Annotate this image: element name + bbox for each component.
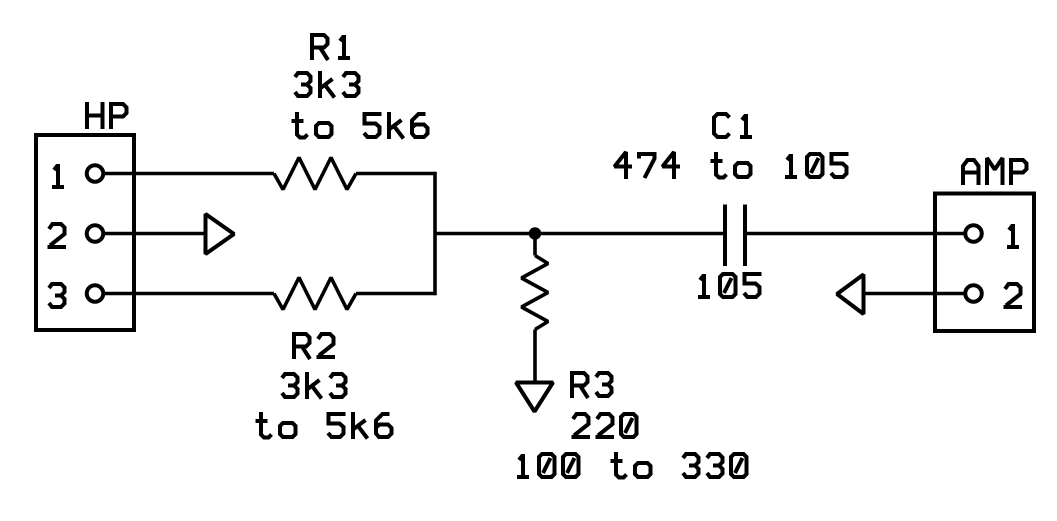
wire R1 to vertical join — [356, 172, 435, 176]
pin 1 circle (HP) — [87, 165, 104, 182]
label 474 to 105 (C1 range) — [615, 152, 849, 179]
wire vertical join of R1 and R2 — [433, 172, 437, 296]
wire R3 to ground arrow — [533, 330, 537, 382]
wire junction to R3 — [533, 239, 537, 256]
label to 5k6 (R1 range) — [292, 112, 428, 139]
resistor R1 — [274, 158, 356, 190]
pin 3 label (HP) — [49, 284, 65, 307]
pin 2 label (AMP) — [1004, 284, 1023, 307]
label R1 — [312, 33, 350, 60]
pin 1 label (AMP) — [1007, 224, 1019, 247]
label R3 — [572, 371, 612, 398]
connector HP body — [36, 135, 134, 330]
label HP — [87, 102, 127, 129]
wire HP pin 3 to R2 — [103, 292, 274, 296]
label 100 to 330 (R3 range) — [517, 452, 747, 478]
label AMP — [963, 158, 1027, 185]
junction node dot — [529, 227, 542, 240]
pin 2 label (HP) — [48, 224, 67, 247]
label R2 — [294, 332, 335, 359]
signal direction arrow (AMP pin 2, pointing left) — [837, 275, 864, 315]
wire main node horizontal — [435, 232, 723, 236]
wire arrow to AMP pin 2 — [864, 292, 966, 296]
label 3k3 (R2 value) — [282, 372, 346, 399]
pin 2 circle (AMP) — [965, 285, 982, 302]
label 220 (R3 value) — [572, 414, 637, 437]
label to 5k6 (R2 range) — [256, 412, 392, 439]
ground arrow (open, pointing down) — [516, 383, 553, 412]
resistor R3 — [522, 256, 549, 330]
capacitor C1 left plate — [723, 205, 727, 267]
label 105 (C1 value) — [698, 274, 762, 297]
wire HP pin 1 to R1 — [103, 172, 274, 176]
pin 1 circle (AMP) — [965, 225, 982, 242]
resistor R2 — [274, 278, 356, 310]
wire R2 to vertical join — [356, 292, 435, 296]
connector AMP body — [935, 194, 1034, 332]
label 3k3 (R1 value) — [295, 71, 359, 98]
wire HP pin 2 to arrow — [103, 232, 204, 236]
wire C1 to AMP pin 1 — [747, 232, 966, 236]
pin 3 circle (HP) — [87, 285, 104, 302]
signal direction arrow (HP pin 2, pointing right) — [206, 214, 235, 254]
pin 1 label (HP) — [52, 164, 64, 187]
pin 2 circle (HP) — [87, 225, 104, 242]
label C1 — [714, 114, 752, 137]
capacitor C1 right plate — [743, 205, 747, 267]
